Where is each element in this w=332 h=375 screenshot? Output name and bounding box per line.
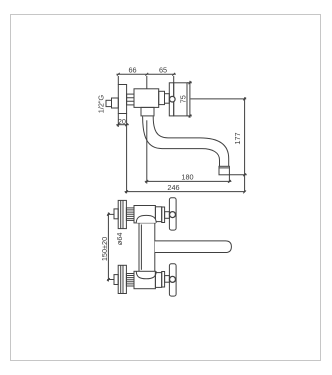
- bottom view: bottom wall stub: [114, 275, 118, 285]
- bottom view: top wall stub: [114, 209, 118, 219]
- bottom view: top handle bar: [169, 198, 176, 230]
- left nut: [112, 98, 119, 108]
- bottom view: top hub 1: [162, 207, 165, 223]
- bottom view: top flange plate: [118, 200, 126, 228]
- bottom view: top thread ring: [126, 208, 134, 221]
- bottom view: top handle screw: [170, 212, 176, 218]
- bottom view: spout bar: [155, 241, 232, 253]
- svg-text:177: 177: [233, 132, 242, 144]
- bottom view: top valve cap: [155, 207, 161, 222]
- bottom view: top hub 2: [165, 212, 170, 219]
- bottom view: bottom handle bar: [169, 264, 176, 296]
- svg-text:246: 246: [167, 183, 179, 192]
- bottom view: bottom thread ring: [126, 274, 134, 287]
- right nipple 1: [159, 91, 165, 104]
- dimension 75: [187, 81, 192, 118]
- bottom view: bottom valve cap: [155, 273, 161, 288]
- right nipple 2: [165, 94, 170, 104]
- svg-text:66: 66: [128, 66, 136, 75]
- bottom view: bottom handle screw: [170, 276, 176, 282]
- bottom view: bottom valve body: [134, 271, 155, 288]
- centre extension line: [146, 120, 148, 183]
- right flange strip: [169, 83, 173, 116]
- bottom view: top dome: [136, 215, 156, 223]
- spout neck: [141, 107, 154, 116]
- bottom view: top valve body: [134, 206, 155, 223]
- screw circle: [170, 96, 176, 102]
- dimension 20: [116, 114, 129, 194]
- left flange: [118, 85, 126, 114]
- dimension 150±20: [107, 212, 114, 281]
- aerator tip: [219, 166, 229, 175]
- dimension 180: [145, 175, 232, 183]
- bottom view: bottom hub 1: [162, 272, 165, 288]
- bottom view: column: [139, 223, 155, 271]
- mixer body: [134, 89, 159, 108]
- bottom view: bottom dome: [136, 271, 156, 279]
- spout tube: [143, 116, 220, 166]
- bottom view: bottom hub 2: [165, 276, 170, 283]
- svg-text:ø64: ø64: [115, 233, 124, 246]
- svg-text:180: 180: [181, 172, 193, 181]
- svg-text:65: 65: [159, 66, 167, 75]
- svg-text:20: 20: [118, 117, 126, 126]
- dimension 177 leader: [191, 97, 247, 193]
- dimension 246: [125, 190, 245, 193]
- thread nipple left: [127, 94, 134, 105]
- bottom view: bottom flange plate: [118, 265, 126, 293]
- svg-text:75: 75: [178, 95, 187, 103]
- dimension 66/65 line: [116, 73, 175, 89]
- right flange plate: [174, 83, 187, 116]
- svg-text:1/2"G: 1/2"G: [96, 94, 105, 113]
- left pipe stub: [106, 100, 112, 106]
- svg-text:150±20: 150±20: [100, 237, 109, 261]
